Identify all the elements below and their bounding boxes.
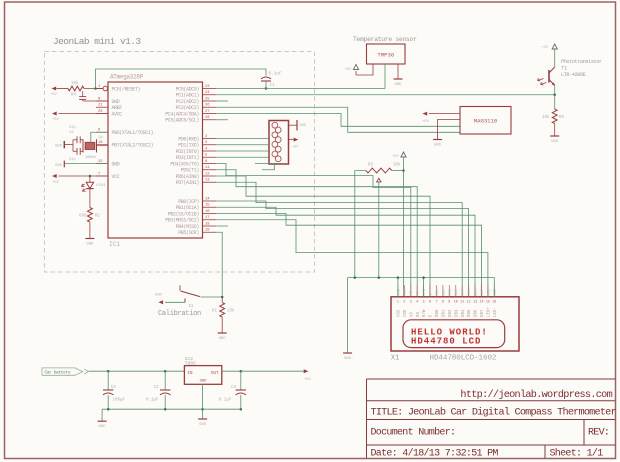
wire crystal to XTAL2 pin — [97, 144, 109, 146]
IC1 right pin PC3(ADC3) (pin 26) — [203, 106, 217, 108]
svg-text:680: 680 — [79, 215, 87, 219]
IC1 left pin GND (pin 8) — [96, 100, 108, 102]
wire R3 left end to gnd bus — [355, 171, 366, 278]
svg-text:DB4: DB4 — [462, 289, 466, 295]
svg-text:10k: 10k — [71, 81, 79, 86]
capacitor C2 0.1uF — [164, 371, 166, 390]
svg-text:12: 12 — [467, 301, 471, 305]
svg-text:http://jeonlab.wordpress.com: http://jeonlab.wordpress.com — [460, 389, 612, 401]
supply +5V arrow (AVCC) — [52, 112, 57, 116]
junction switch/R1 — [221, 296, 224, 299]
svg-text:15: 15 — [205, 204, 210, 208]
svg-text:Phototransistor: Phototransistor — [561, 59, 602, 65]
resistor R1 10k (calibration pulldown) — [221, 297, 223, 302]
svg-text:8: 8 — [442, 301, 444, 305]
wire RESET net up and over to C1 — [96, 69, 267, 89]
svg-text:HD44780 LCD: HD44780 LCD — [411, 337, 481, 347]
svg-text:0.1uF: 0.1uF — [269, 72, 283, 77]
svg-text:+5V: +5V — [392, 155, 399, 159]
ground symbol (connector) — [296, 120, 298, 131]
IC1 right pin PD6(AIN0) (pin 12) — [203, 175, 217, 177]
junction C4 — [107, 370, 110, 373]
LCD pin 4 RS — [416, 285, 418, 297]
wire node to R5 — [554, 95, 556, 109]
LCD pin 11 DB4 — [461, 285, 463, 297]
svg-text:PC2(ADC2): PC2(ADC2) — [176, 99, 200, 105]
svg-text:IC1: IC1 — [109, 241, 120, 248]
junction C3 — [240, 370, 243, 373]
connector pin hole 8 — [275, 156, 281, 162]
svg-text:DB4: DB4 — [462, 309, 466, 317]
ground symbol (LED) — [85, 238, 94, 240]
junction C1/PC0 — [265, 87, 268, 90]
resistor R2 680 (LED) — [88, 208, 93, 223]
svg-text:9: 9 — [448, 301, 450, 305]
wire switch left — [165, 301, 185, 303]
supply +5V arrow (VCC) — [52, 174, 57, 178]
svg-text:GND: GND — [551, 140, 559, 144]
wire net PC1 to phototransistor — [216, 94, 555, 96]
svg-text:28: 28 — [205, 116, 210, 120]
svg-text:16MHz: 16MHz — [85, 156, 96, 160]
svg-text:7805: 7805 — [185, 360, 197, 366]
IC1 right pin PC4(ADC4/SDA) (pin 27) — [203, 113, 217, 115]
svg-text:26: 26 — [205, 104, 210, 108]
IC1 right pin PD3(INT1) (pin 5) — [203, 156, 217, 158]
LCD pin 6 E — [429, 285, 431, 297]
svg-text:C3: C3 — [231, 386, 237, 390]
svg-text:PD3(INT1): PD3(INT1) — [176, 155, 200, 161]
svg-text:R2: R2 — [95, 215, 101, 219]
svg-text:PB7(XTAL2/TOSC2): PB7(XTAL2/TOSC2) — [112, 143, 154, 149]
wire gnd rail to ground symbol — [101, 409, 103, 421]
ground symbol (crystal caps) — [63, 141, 65, 148]
svg-text:DB2: DB2 — [449, 289, 453, 295]
svg-text:14: 14 — [205, 197, 210, 201]
svg-text:GND: GND — [86, 242, 94, 246]
svg-text:PB1(OC1A): PB1(OC1A) — [176, 205, 200, 211]
IC1 right pin PC1(ADC1) (pin 24) — [203, 94, 217, 96]
svg-text:LED-: LED- — [494, 307, 498, 317]
svg-text:AVCC: AVCC — [112, 111, 123, 117]
IC1 right pin PB3(MOSI/OC2) (pin 17) — [203, 219, 217, 221]
svg-text:R/W: R/W — [422, 288, 427, 295]
svg-text:R/W: R/W — [422, 309, 427, 317]
wire R3 right end — [392, 170, 404, 172]
svg-text:+5V: +5V — [52, 181, 60, 185]
IC1 right pin PB1(OC1A) (pin 15) — [203, 206, 217, 208]
IC1 left pin AVCC (pin 20) — [96, 113, 108, 115]
svg-text:C1: C1 — [270, 84, 276, 88]
svg-text:13: 13 — [205, 179, 210, 183]
IC1 right pin PD5(T1) (pin 11) — [203, 169, 217, 171]
connector pin hole 6 — [275, 146, 281, 152]
svg-text:JeonLab mini v1.3: JeonLab mini v1.3 — [53, 36, 141, 47]
LCD pin 16 LED- — [493, 285, 495, 297]
svg-text:VO: VO — [410, 291, 414, 295]
svg-text:25: 25 — [205, 97, 210, 101]
svg-text:GND: GND — [394, 83, 402, 87]
svg-text:HD44780LCD-1602: HD44780LCD-1602 — [430, 355, 497, 363]
MAG3110 GND wire — [438, 120, 460, 140]
svg-text:R4: R4 — [71, 94, 77, 98]
IC1 right pin PD2(INT0) (pin 4) — [203, 150, 217, 152]
svg-text:PC5(ADC5/SCL): PC5(ADC5/SCL) — [165, 118, 199, 124]
svg-text:100µF: 100µF — [113, 398, 126, 402]
capacitor C6 22p — [73, 139, 77, 141]
crystal Q1 16MHz — [82, 139, 84, 152]
wire R1 to ground — [221, 317, 223, 332]
svg-text:GND: GND — [99, 425, 107, 429]
svg-text:10k: 10k — [393, 162, 401, 167]
svg-text:DB0: DB0 — [436, 289, 440, 295]
svg-text:11: 11 — [460, 301, 464, 305]
gnd rail under regulator — [102, 408, 241, 410]
svg-text:Car battery: Car battery — [45, 371, 71, 376]
svg-text:PC4(ADC4/SDA): PC4(ADC4/SDA) — [165, 111, 199, 117]
svg-text:VO: VO — [410, 312, 414, 317]
wire net calibration switch to PB5 — [216, 232, 222, 297]
LCD pin 12 DB5 — [468, 285, 470, 297]
supply +5V arrow (R3/LCD) — [401, 152, 406, 157]
IC1 right pin PC0(ADC0) (pin 23) — [203, 88, 217, 90]
junction LED tap — [89, 175, 92, 178]
ground symbol (R5) — [550, 135, 559, 137]
supply +5V arrow (regulator output) — [304, 369, 309, 373]
IC1 right pin PC2(ADC2) (pin 25) — [203, 100, 217, 102]
wire ground to IC GND pin — [64, 163, 108, 165]
connector pin hole 5 — [272, 142, 278, 148]
svg-text:10k: 10k — [542, 115, 550, 120]
ground symbol (LCD) — [343, 352, 352, 354]
connector JP1 serial header body — [269, 121, 289, 165]
svg-text:PD4(XCK/T0): PD4(XCK/T0) — [170, 161, 199, 167]
LCD pin 15 LED+ — [487, 285, 489, 297]
svg-text:23: 23 — [205, 85, 210, 89]
wire connector bottom stub 2 — [255, 163, 281, 165]
switch S1 — [184, 299, 186, 303]
potentiometer R3 10k contrast — [366, 168, 392, 173]
svg-text:PD5(T1): PD5(T1) — [181, 168, 200, 174]
svg-text:TITLE: JeonLab Car Digital Com: TITLE: JeonLab Car Digital Compass Therm… — [371, 407, 617, 419]
IC1 right pin PD0(RXD) (pin 2) — [203, 138, 217, 140]
wire net LCD RS — [216, 170, 417, 297]
wire +5V to T1 collector — [554, 49, 556, 67]
supply +5V arrow (connector) — [289, 139, 294, 141]
svg-text:7: 7 — [435, 301, 437, 305]
svg-text:C2: C2 — [154, 386, 160, 390]
svg-text:Date: 4/18/13 7:32:51 PM: Date: 4/18/13 7:32:51 PM — [371, 447, 499, 459]
svg-text:PC0(ADC0): PC0(ADC0) — [176, 86, 200, 92]
svg-text:C4: C4 — [111, 386, 117, 390]
svg-text:GND: GND — [112, 161, 120, 167]
ground arrow (switch) — [158, 300, 163, 304]
svg-text:PB5(SCK): PB5(SCK) — [178, 230, 199, 236]
LCD pin 13 DB6 — [474, 285, 476, 297]
svg-text:22p: 22p — [69, 126, 77, 130]
svg-text:PC6(/RESET): PC6(/RESET) — [112, 86, 141, 92]
svg-text:GND: GND — [55, 145, 63, 149]
wire bus to ground drop — [347, 278, 349, 353]
supply +5V arrow (TMP36) — [353, 65, 358, 70]
IC1 left pin PC6(/RESET) (pin 1) — [96, 88, 108, 90]
svg-text:3: 3 — [410, 301, 412, 305]
LCD pin 7 DB0 — [436, 285, 438, 297]
svg-text:+5V: +5V — [422, 120, 430, 124]
IC1 right pin PC5(ADC5/SCL) (pin 28) — [203, 119, 217, 121]
wire C3 to gnd rail — [240, 395, 242, 409]
wire net PC4 to MAG3110 SDA — [216, 114, 460, 127]
IC1 RESET inversion bubble — [103, 86, 108, 91]
IC4 MAG3110 body — [460, 107, 511, 135]
svg-text:DB1: DB1 — [443, 309, 447, 317]
svg-text:22p: 22p — [69, 158, 77, 162]
svg-text:GND: GND — [155, 294, 163, 298]
junction C2 — [164, 370, 167, 373]
svg-text:PD6(AIN0): PD6(AIN0) — [176, 174, 200, 180]
wire connector RX to PD0 — [216, 138, 269, 140]
wire net LCD D6 — [216, 207, 475, 297]
wire regulator OUT to +5V — [222, 370, 304, 372]
junction node RESET — [94, 87, 97, 90]
svg-text:GND: GND — [300, 124, 306, 128]
svg-text:+5V: +5V — [542, 46, 549, 50]
svg-text:4: 4 — [416, 301, 418, 305]
wire C4 to gnd rail — [107, 395, 109, 409]
LCD pin 3 VO — [410, 285, 412, 297]
wire +5V down to VDD — [403, 157, 405, 297]
wire gnd to caps — [64, 144, 73, 146]
svg-text:10k: 10k — [227, 309, 235, 314]
LCD pin 9 DB2 — [448, 285, 450, 297]
svg-text:Sheet: 1/1: Sheet: 1/1 — [550, 447, 604, 459]
IC3 TMP36 body — [367, 44, 406, 64]
ground symbol (MAG3110) — [433, 139, 442, 141]
svg-text:+5V: +5V — [52, 118, 60, 122]
svg-text:RS: RS — [417, 291, 421, 295]
svg-text:R1: R1 — [212, 310, 218, 314]
connector pin hole 3 — [272, 132, 278, 138]
wire +5V to AVCC — [59, 113, 109, 115]
svg-text:27: 27 — [205, 110, 210, 114]
svg-text:DB0: DB0 — [436, 309, 440, 317]
wire stub PC2 — [216, 100, 228, 102]
net label Car battery — [42, 368, 83, 375]
IC1 right pin PD7(AIN1) (pin 13) — [203, 181, 217, 183]
svg-text:GND: GND — [199, 423, 207, 427]
svg-text:R3: R3 — [368, 163, 374, 167]
svg-text:DB6: DB6 — [475, 309, 479, 317]
IC2 7805 regulator body — [184, 366, 221, 385]
svg-text:DB7: DB7 — [481, 289, 485, 295]
svg-text:+5V: +5V — [345, 68, 352, 72]
wire C1 to PC0 net — [265, 81, 267, 89]
connector pin hole 1 — [272, 122, 278, 128]
wire LCD ground bus — [348, 278, 495, 297]
wire GND row to IC — [83, 100, 108, 102]
wire R3 wiper to gnd bus — [378, 182, 380, 278]
junction R3 right end — [402, 169, 405, 172]
svg-text:VSS: VSS — [398, 309, 402, 317]
resistor R4 10k (reset pull-up) — [68, 86, 84, 91]
svg-text:Calibration: Calibration — [158, 310, 201, 318]
wire net LCD E — [216, 176, 430, 297]
junction reg gnd rail — [201, 408, 204, 411]
wire R5 to ground — [554, 124, 556, 136]
svg-text:OUT: OUT — [211, 372, 219, 376]
wire connector DTR to PD2 row — [216, 150, 269, 152]
svg-text:19: 19 — [205, 229, 210, 233]
LED1 power LED — [89, 176, 91, 182]
connector pin hole 4 — [275, 137, 281, 143]
svg-text:PC3(ADC3): PC3(ADC3) — [176, 105, 200, 111]
svg-text:TMP36: TMP36 — [377, 52, 394, 59]
wire net LCD D7 — [216, 214, 482, 297]
ground symbol (R1) — [218, 332, 227, 334]
svg-text:5: 5 — [423, 301, 425, 305]
phototransistor T1 LTR-4206E — [548, 70, 550, 83]
svg-text:16: 16 — [205, 210, 210, 214]
wire regulator GND pin — [202, 384, 204, 418]
svg-text:PD7(AIN1): PD7(AIN1) — [176, 180, 200, 186]
svg-text:DB5: DB5 — [468, 289, 472, 295]
TMP36 GND pin wire — [397, 64, 399, 79]
wire net PC3 to MAG3110 SCL — [216, 107, 460, 132]
svg-text:10: 10 — [454, 301, 458, 305]
svg-text:GND: GND — [434, 143, 442, 147]
capacitor C4 100uF — [107, 371, 109, 390]
LCD pin 2 VDD — [403, 285, 405, 297]
LCD display window — [403, 320, 505, 348]
svg-text:MAG3110: MAG3110 — [474, 118, 498, 125]
IC1 right pin PB2(SS/OC1B) (pin 16) — [203, 213, 217, 215]
wire net PC0 to TMP36 output — [216, 88, 385, 90]
wire +5V to R4 — [57, 88, 69, 90]
junction T1/R5/PC1 — [553, 94, 556, 97]
capacitor C5 (reset to GND) — [82, 91, 84, 96]
svg-text:RS: RS — [417, 312, 421, 317]
LCD pin 1 VSS — [397, 285, 399, 297]
svg-text:Q1: Q1 — [99, 136, 104, 140]
wire stub PC5 — [216, 119, 228, 121]
svg-text:2: 2 — [403, 301, 405, 305]
svg-text:ATmega328P: ATmega328P — [110, 73, 144, 80]
svg-text:21: 21 — [98, 104, 103, 108]
svg-text:+5V: +5V — [292, 146, 299, 150]
svg-text:LED1: LED1 — [96, 184, 106, 188]
svg-text:VDD: VDD — [404, 309, 408, 317]
svg-text:GND: GND — [112, 99, 120, 105]
JeonLab mini module dashed boundary — [45, 52, 315, 273]
svg-text:T1: T1 — [561, 66, 567, 72]
wire C2 to gnd rail — [164, 395, 166, 409]
svg-text:AREF: AREF — [112, 105, 123, 111]
svg-text:16: 16 — [492, 301, 496, 305]
IC1 left pin PB7(XTAL2/TOSC2) (pin 10) — [96, 144, 108, 146]
svg-text:VCC: VCC — [112, 174, 120, 180]
svg-text:0.1µF: 0.1µF — [219, 398, 232, 402]
svg-text:PB3(MOSI/OC2): PB3(MOSI/OC2) — [165, 218, 199, 224]
supply +5V arrow (MAG3110) — [429, 113, 460, 115]
svg-text:DB5: DB5 — [468, 309, 472, 317]
svg-text:1: 1 — [397, 301, 399, 305]
svg-text:GND: GND — [200, 380, 208, 384]
svg-text:PD0(RXD): PD0(RXD) — [178, 136, 199, 142]
wire stub PB4 — [216, 225, 228, 227]
svg-text:18: 18 — [205, 222, 210, 226]
svg-text:24: 24 — [205, 91, 210, 95]
wire bus to R/W — [423, 278, 425, 297]
svg-text:14: 14 — [479, 301, 483, 305]
capacitor C1 0.1uF (auto-reset) — [261, 77, 271, 79]
wire R2 to ground — [89, 222, 91, 238]
wire connector bottom stub 1 — [262, 164, 274, 170]
svg-text:DB3: DB3 — [455, 309, 459, 317]
wire net LCD VO (contrast) — [216, 164, 411, 297]
svg-text:S1: S1 — [189, 305, 195, 309]
svg-text:GND: GND — [344, 357, 352, 361]
svg-text:VDD: VDD — [404, 289, 408, 295]
IC1 right pin PB4(MISO) (pin 18) — [203, 225, 217, 227]
IC U1 ATmega328P body — [108, 82, 203, 238]
supply +5V arrow (reset pull-up) — [52, 87, 57, 91]
IC1 right pin PB5(SCK) (pin 19) — [203, 231, 217, 233]
svg-text:DB1: DB1 — [442, 289, 446, 295]
svg-text:+5V: +5V — [50, 93, 58, 97]
wire R4 to RESET pin — [84, 88, 103, 90]
IC1 right pin PD1(TXD) (pin 3) — [203, 144, 217, 146]
wire +5V to VCC pin — [59, 175, 109, 177]
wire T1 emitter to node — [554, 86, 556, 95]
svg-text:LED+: LED+ — [488, 307, 492, 317]
resistor R5 10k (photo) — [552, 109, 557, 124]
wire connector TX to PD1 — [216, 144, 269, 146]
LCD pin 5 R/W — [423, 285, 425, 297]
LCD pin 10 DB3 — [455, 285, 457, 297]
IC1 right pin PD4(XCK/T0) (pin 6) — [203, 163, 217, 165]
LCD pin 8 DB1 — [442, 285, 444, 297]
svg-text:REV:: REV: — [588, 428, 609, 439]
svg-text:Temperature sensor: Temperature sensor — [353, 36, 417, 43]
svg-text:PB4(MISO): PB4(MISO) — [176, 224, 200, 230]
svg-text:15: 15 — [486, 301, 490, 305]
svg-text:+5V: +5V — [304, 378, 312, 382]
svg-text:E: E — [429, 293, 433, 295]
TMP36 Vs pin wire — [356, 64, 373, 75]
svg-text:10: 10 — [98, 141, 103, 145]
wire crystal to XTAL1 pin — [91, 132, 108, 142]
svg-text:6: 6 — [429, 301, 431, 305]
svg-text:PD1(TXD): PD1(TXD) — [178, 143, 199, 149]
ground symbol (C4 rail) — [98, 420, 107, 422]
svg-text:C6: C6 — [69, 131, 74, 135]
svg-text:11: 11 — [205, 166, 210, 170]
connector GND pin wire — [289, 124, 298, 126]
svg-text:DB7: DB7 — [481, 309, 485, 317]
svg-text:X1: X1 — [391, 355, 399, 363]
svg-text:Document Number:: Document Number: — [371, 427, 456, 439]
svg-text:12: 12 — [205, 172, 210, 176]
connector pin hole 7 — [272, 151, 278, 157]
wire battery to regulator IN — [89, 370, 185, 372]
wire LED to R2 — [89, 189, 91, 208]
svg-text:PC1(ADC1): PC1(ADC1) — [176, 93, 200, 99]
wire net LCD D5 — [216, 201, 469, 297]
supply +5V arrow (phototransistor) — [552, 44, 557, 49]
capacitor C7 22p — [73, 150, 77, 152]
svg-text:LTR-4206E: LTR-4206E — [561, 72, 586, 78]
IC1 left pin VCC (pin 7) — [96, 175, 108, 177]
